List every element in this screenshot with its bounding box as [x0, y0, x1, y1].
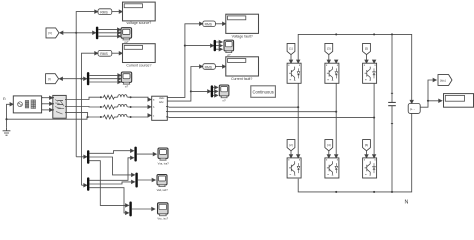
svg-text:[V]: [V] [48, 31, 52, 35]
wire L2 to measurement block [128, 106, 150, 108]
capacitor C1 branch wire top [391, 34, 393, 102]
demux D1 [96, 27, 98, 40]
inductor L1 [118, 95, 127, 98]
transistor Q6 IGBT [363, 158, 377, 178]
wire leg3 midpoint [373, 83, 375, 156]
wire phase A to leg1 [169, 106, 299, 108]
three-phase V-I measurement block M1 [152, 96, 169, 120]
svg-text:Vsc, isc?: Vsc, isc? [157, 217, 168, 220]
capacitor C1 [388, 102, 396, 105]
source V1 three-phase programmable voltage source [10, 96, 43, 113]
junction phase C leg3 [373, 117, 375, 119]
resistor R1 [102, 95, 115, 99]
transistor Q4 IGBT [325, 158, 339, 178]
scope icon S1 [121, 28, 132, 40]
svg-text:[2]: [2] [289, 143, 293, 147]
RMS block RMS2 [98, 50, 112, 56]
wire DC bus negative [298, 114, 412, 192]
wire Iabc riser right [167, 67, 201, 102]
demux B [87, 177, 89, 190]
wire demux D2 out2 [89, 78, 119, 80]
wire DC bus positive [298, 34, 412, 102]
svg-text:voltage source?: voltage source? [127, 21, 152, 25]
from tag g3 [325, 43, 333, 54]
display block [444, 94, 474, 108]
RMS block RMS3 [203, 21, 216, 27]
wire source B to fault block [43, 103, 51, 105]
svg-text:[3]: [3] [327, 47, 331, 51]
junction Vabc tap [75, 32, 77, 34]
wire Vabc tap to demux D3 [185, 45, 212, 47]
scope current source [123, 44, 156, 63]
goto tag Idc [438, 75, 452, 86]
wire demux D4 out3 [213, 94, 216, 96]
transistor Q1 IGBT [287, 63, 301, 83]
svg-text:vi?: vi? [222, 98, 226, 102]
svg-text:[6]: [6] [365, 143, 369, 147]
transistor Q3 IGBT [325, 63, 339, 83]
from tag g1 [287, 43, 295, 54]
wire demux D3 out1 [216, 41, 221, 43]
capacitor C1 branch wire bottom [391, 106, 393, 192]
wire Idc out to goto and display [420, 80, 440, 107]
demux A [87, 150, 89, 164]
from tag g4 [325, 140, 333, 151]
wire Iabc riser left [82, 53, 97, 185]
goto tag Vabc [46, 28, 59, 38]
resistor R3 [102, 115, 115, 119]
svg-text:RMS: RMS [205, 23, 213, 27]
inductor L2 [118, 104, 127, 107]
wire row3 fault to RL branch [66, 113, 100, 117]
capacitor C1 port mark top [391, 92, 393, 94]
wire phase B to leg2 [169, 111, 337, 113]
svg-text:[5]: [5] [365, 47, 369, 51]
wire mux C to scope [137, 153, 155, 155]
wire row2 fault to RL branch [66, 106, 100, 109]
svg-text:n: n [3, 96, 6, 101]
wire R3 to L3 [116, 116, 118, 118]
svg-text:i+ -: i+ - [410, 108, 415, 112]
wire neutral run to RL row3 [7, 117, 88, 119]
wire demux D1 out2 [98, 32, 119, 34]
svg-text:[Idc]: [Idc] [440, 78, 446, 82]
wire RMS4 to scope [215, 66, 224, 68]
wire Iabc tap to demux D4 [191, 90, 209, 92]
junction bus leg3 [373, 33, 375, 35]
wire g5 gate [366, 55, 368, 62]
capacitor C1 port mark bottom [391, 123, 393, 125]
wire g4 gate [328, 151, 330, 157]
junction row3 join [87, 116, 89, 118]
scope icon SC [158, 203, 169, 216]
wire demux D2 out3 [89, 81, 119, 83]
svg-text:Current fault?: Current fault? [231, 77, 252, 81]
junction Vabc right tap [184, 45, 186, 47]
svg-text:RMS: RMS [100, 52, 108, 56]
junction Idc display tap [427, 100, 429, 102]
wire Vabc tap to goto tag and demux [60, 32, 96, 34]
wire source A to fault block [43, 97, 51, 99]
wire B out1 to mux C [89, 158, 132, 181]
junction Iabc tap [80, 78, 82, 80]
svg-text:Current source?: Current source? [126, 64, 151, 68]
wire g1 gate [290, 55, 292, 62]
demux D4 [211, 85, 213, 97]
inductor L3 [118, 114, 127, 117]
demux D3 [214, 40, 216, 51]
junction bus2 leg2 [335, 191, 337, 193]
wire RMS1 to scope [112, 11, 121, 13]
wire B out3 to mux E [89, 188, 127, 213]
scope icon SB [157, 175, 167, 187]
wire demux D2 out1 [89, 74, 119, 76]
junction phase A leg1 [297, 106, 299, 108]
mux C [134, 147, 136, 162]
svg-text:vi?: vi? [125, 85, 129, 89]
scope Current fault [226, 57, 259, 76]
transistor Q2 IGBT [287, 158, 301, 178]
scope icon S2 [121, 72, 131, 84]
svg-text:Voltage fault?: Voltage fault? [232, 34, 253, 38]
transistor Q5 IGBT [363, 63, 377, 83]
RMS block RMS1 [98, 9, 112, 15]
from tag g6 [363, 140, 371, 151]
scope Voltage fault [226, 14, 259, 33]
svg-text:RMS: RMS [205, 65, 213, 69]
mux E [129, 202, 131, 217]
resistor R2 [102, 105, 115, 109]
wire mux E to scope [132, 208, 153, 210]
wire A out1 to mux C [89, 151, 132, 154]
wire demux D3 out2 [216, 45, 221, 47]
wire L1 to measurement block [128, 97, 150, 99]
mux D [135, 173, 137, 188]
goto tag Iabc [46, 74, 59, 84]
wire g3 gate [328, 55, 330, 62]
svg-text:[1]: [1] [289, 47, 293, 51]
wire g2 gate [290, 151, 292, 157]
svg-text:Vabc: Vabc [159, 97, 165, 100]
wire phase C to leg3 [169, 117, 375, 119]
svg-text:[4]: [4] [327, 143, 331, 147]
ground [3, 128, 11, 136]
junction neutral tee [5, 118, 7, 120]
wire source C to fault block [43, 109, 51, 111]
demux D2 [87, 72, 89, 85]
svg-text:Continuous: Continuous [253, 89, 274, 94]
wire leg2 midpoint [335, 83, 337, 156]
wire R2 to L2 [116, 106, 118, 108]
wire RMS3 to scope [215, 23, 224, 25]
scope voltage source [123, 2, 156, 21]
three-phase fault block F1 [53, 95, 66, 118]
scope icon SA [158, 148, 168, 160]
wire A out2 to mux D [89, 157, 133, 175]
junction bus2 leg3 [373, 191, 375, 193]
wire leg1 midpoint [297, 83, 299, 156]
wire demux D1 out1 [98, 29, 119, 31]
wire L3 to measurement block [128, 115, 150, 117]
wire R1 to L1 [116, 96, 118, 98]
junction Iabc right tap [190, 90, 192, 92]
svg-text:Vsa, isa?: Vsa, isa? [158, 162, 170, 166]
wire demux D3 out3 [216, 48, 221, 50]
scope icon S3 [224, 40, 234, 53]
wire RMS2 to scope [112, 52, 121, 54]
junction bus2 cap [391, 191, 393, 193]
wire A out3 to mux E [89, 161, 127, 206]
powergui block [251, 86, 276, 98]
junction bus leg2 [335, 33, 337, 35]
wire B out2 to mux D [89, 182, 133, 184]
wire demux A feed [76, 156, 85, 158]
from tag g2 [287, 140, 295, 151]
wire Vabc riser right [167, 24, 201, 98]
wire row1 fault to RL branch [66, 97, 100, 99]
wire Vabc riser left [76, 12, 96, 157]
svg-text:RMS: RMS [100, 11, 108, 15]
svg-text:Vab, iab?: Vab, iab? [157, 188, 169, 192]
wire g6 gate [366, 151, 368, 157]
current measurement Idc [408, 100, 420, 113]
wire demux D1 out3 [98, 35, 119, 37]
wire demux D4 out1 [213, 86, 216, 88]
wire neutral from source left port to ground [7, 104, 13, 127]
junction phase B leg2 [335, 111, 337, 113]
wire demux D4 out2 [213, 90, 216, 92]
scope icon S4 [219, 85, 229, 98]
wire demux B feed [82, 184, 86, 186]
svg-text:Iabc: Iabc [159, 101, 164, 104]
from tag g5 [363, 43, 371, 54]
wire Iabc tap to goto tag and demux [60, 78, 87, 80]
wire mux D to scope [138, 179, 154, 181]
svg-text:[I]: [I] [48, 77, 51, 81]
svg-text:N: N [405, 199, 409, 205]
junction bus cap [391, 33, 393, 35]
RMS block RMS4 [203, 64, 216, 70]
